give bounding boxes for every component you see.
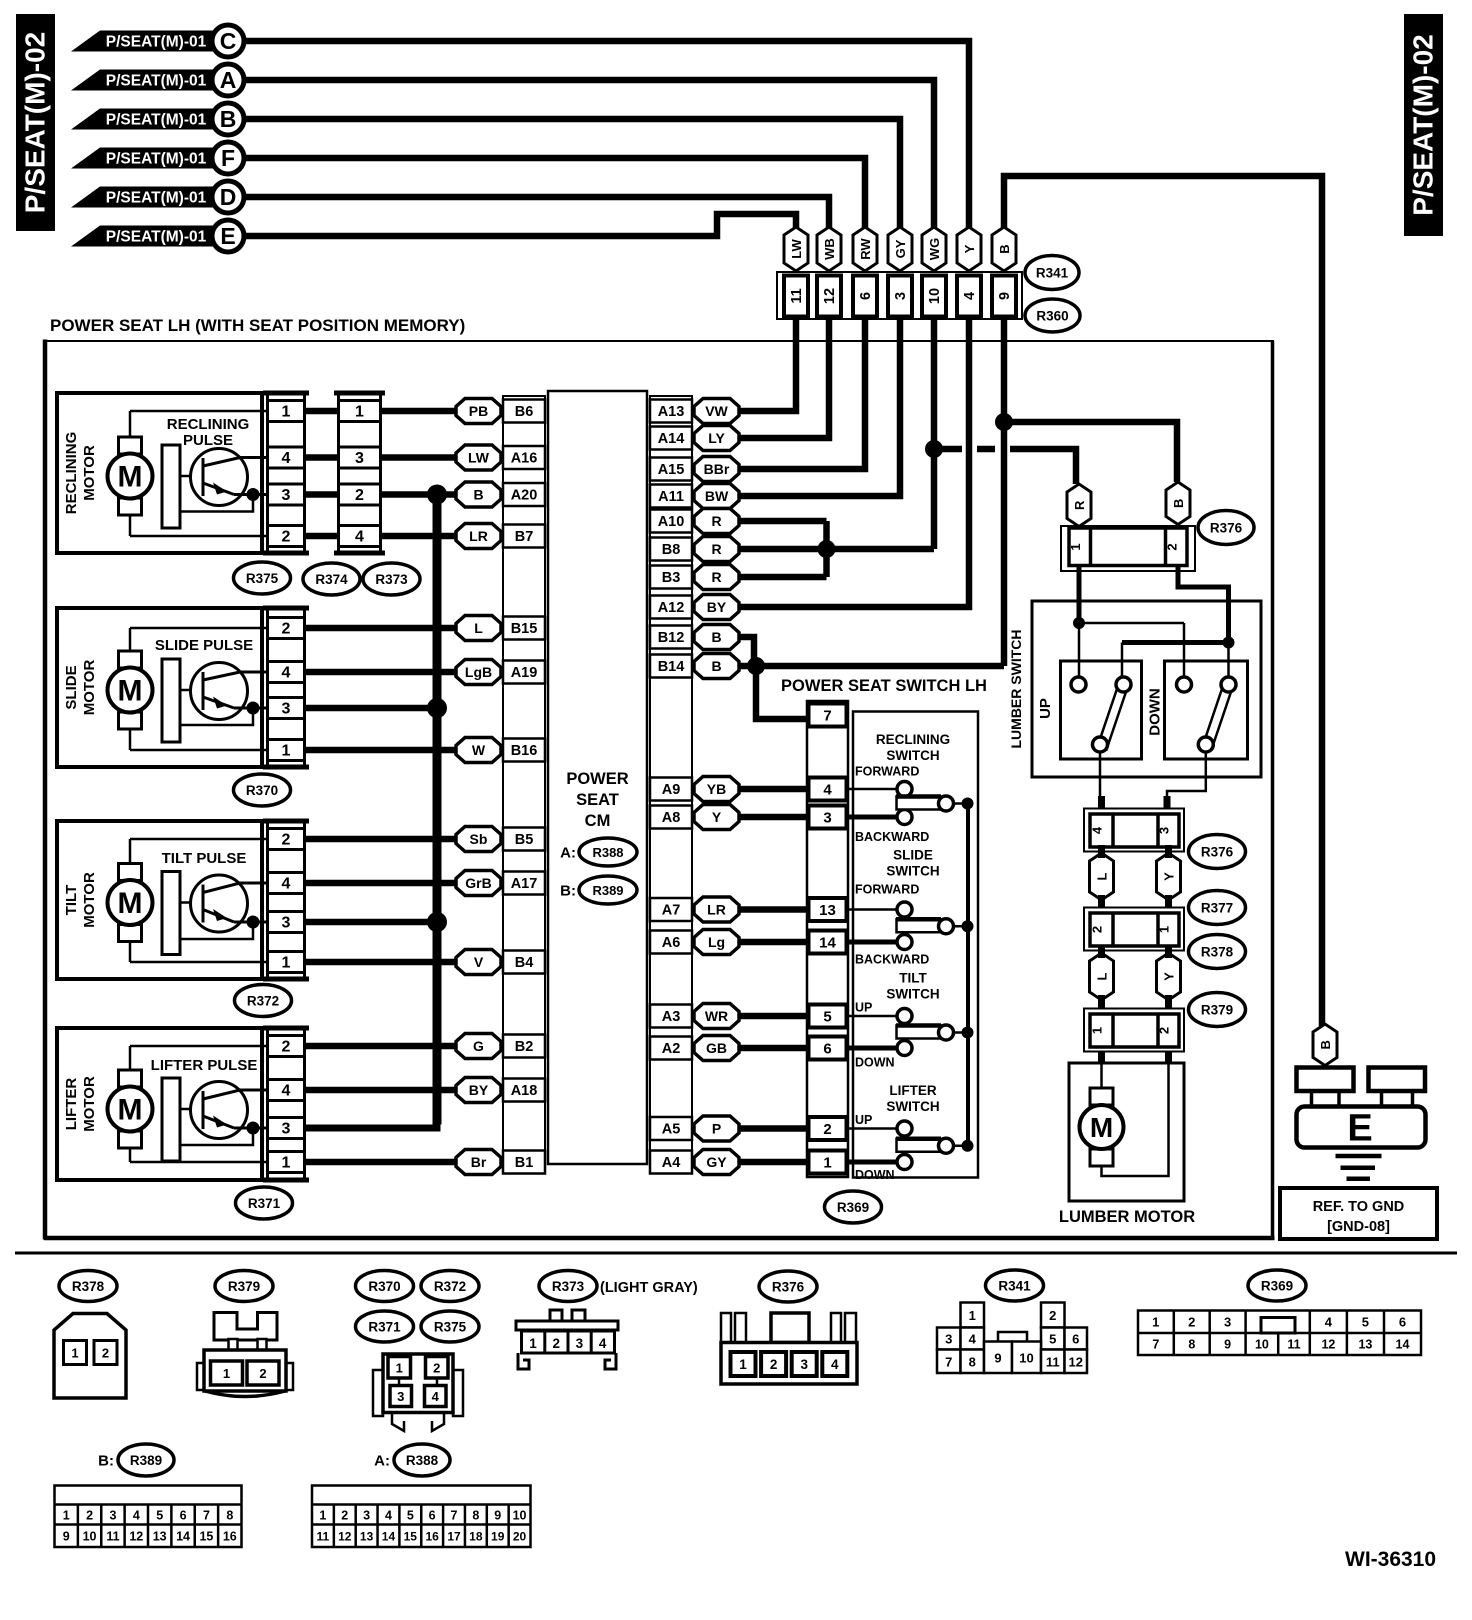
svg-text:1: 1 — [355, 404, 364, 421]
svg-text:R373: R373 — [375, 572, 408, 587]
svg-text:3: 3 — [282, 915, 291, 932]
svg-text:4: 4 — [282, 1083, 291, 1100]
svg-text:SWITCH: SWITCH — [886, 748, 939, 763]
svg-text:2: 2 — [1090, 926, 1105, 933]
connector column R371 — [263, 1026, 309, 1031]
svg-text:LW: LW — [789, 239, 804, 259]
svg-text:B: B — [711, 658, 721, 674]
svg-text:3: 3 — [282, 1121, 291, 1138]
svg-text:R369: R369 — [1261, 1279, 1293, 1294]
motor M lifter — [130, 1045, 266, 1048]
cell A2 / capsule GB — [650, 1037, 692, 1060]
wire R376-1 to lumber switch — [1077, 566, 1082, 624]
wire to switch pin 3 — [739, 814, 807, 821]
svg-text:4: 4 — [1090, 826, 1105, 834]
connector label R388 — [579, 838, 637, 866]
svg-text:R370: R370 — [246, 783, 278, 798]
svg-text:R378: R378 — [1201, 945, 1234, 960]
svg-text:R388: R388 — [406, 1453, 439, 1468]
svg-text:8: 8 — [226, 1509, 233, 1523]
wire to capsule BY — [306, 1087, 458, 1094]
connector block R376 lumber — [1084, 809, 1184, 852]
svg-text:Lg: Lg — [708, 934, 725, 950]
svg-text:WB: WB — [822, 238, 837, 260]
pin 12 cell R341 — [817, 276, 841, 317]
svg-text:SWITCH: SWITCH — [886, 1099, 939, 1114]
svg-text:LUMBER SWITCH: LUMBER SWITCH — [1008, 630, 1024, 749]
wire pin 6 to A15 BBr — [739, 318, 865, 469]
svg-text:4: 4 — [282, 450, 291, 467]
connector label R372 legend — [421, 1271, 479, 1302]
svg-text:C: C — [220, 28, 237, 54]
svg-text:18: 18 — [469, 1530, 483, 1544]
svg-text:Y: Y — [962, 244, 977, 253]
svg-text:12: 12 — [1321, 1338, 1335, 1352]
svg-text:P/SEAT(M)-02: P/SEAT(M)-02 — [1408, 34, 1439, 216]
svg-text:5: 5 — [823, 1009, 831, 1026]
svg-text:G: G — [473, 1038, 484, 1054]
svg-text:4: 4 — [969, 1332, 977, 1347]
POWER SEAT CM left connector strip B — [503, 396, 545, 1158]
connector label R379 — [1189, 993, 1246, 1027]
svg-text:RW: RW — [858, 238, 873, 260]
capsule Sb / cell B5 — [456, 827, 501, 852]
svg-text:12: 12 — [822, 288, 838, 304]
POWER SEAT CM center box — [548, 391, 647, 1164]
wire banner C to pin 4 — [244, 41, 969, 230]
svg-text:SLIDE: SLIDE — [63, 665, 80, 709]
svg-text:9: 9 — [1224, 1338, 1231, 1352]
svg-text:4: 4 — [282, 876, 291, 893]
svg-text:2: 2 — [341, 1509, 348, 1523]
svg-text:10: 10 — [927, 288, 943, 304]
svg-text:R371: R371 — [248, 1196, 281, 1211]
svg-text:11: 11 — [317, 1530, 330, 1544]
wire pin 3 to B bus — [306, 919, 437, 926]
svg-text:FORWARD: FORWARD — [855, 765, 919, 779]
R373 pinout — [550, 1310, 562, 1329]
connector banner P/SEAT(M)-01 F — [71, 148, 226, 169]
svg-text:SLIDE PULSE: SLIDE PULSE — [155, 637, 253, 654]
svg-text:POWER SEAT SWITCH LH: POWER SEAT SWITCH LH — [781, 677, 987, 695]
svg-text:2: 2 — [823, 1121, 831, 1138]
svg-text:Br: Br — [471, 1154, 487, 1170]
svg-text:M: M — [118, 461, 143, 494]
svg-text:P/SEAT(M)-01: P/SEAT(M)-01 — [106, 151, 207, 168]
wire A10 R to bus — [739, 518, 827, 525]
R376 pinout — [721, 1313, 731, 1343]
svg-text:8: 8 — [969, 1354, 976, 1369]
svg-text:P/SEAT(M)-01: P/SEAT(M)-01 — [106, 34, 207, 51]
svg-text:B12: B12 — [658, 630, 685, 646]
R341 pinout — [961, 1303, 985, 1328]
svg-text:FORWARD: FORWARD — [855, 883, 919, 897]
svg-text:1: 1 — [396, 1360, 403, 1375]
svg-text:12: 12 — [129, 1530, 143, 1544]
svg-text:B: B — [220, 106, 237, 132]
wire banner E to pin 11 — [244, 214, 796, 236]
svg-text:R372: R372 — [247, 994, 279, 1009]
switch bus vertical — [966, 803, 970, 1146]
svg-text:LW: LW — [468, 450, 490, 466]
svg-text:1: 1 — [529, 1336, 537, 1351]
svg-text:7: 7 — [823, 708, 831, 725]
svg-text:4: 4 — [823, 782, 832, 799]
svg-text:F: F — [221, 145, 235, 171]
svg-text:R360: R360 — [1036, 309, 1068, 324]
svg-text:2: 2 — [433, 1360, 440, 1375]
svg-text:A:: A: — [560, 845, 576, 862]
capsule L / cell B15 — [456, 616, 501, 641]
connector label R370 — [234, 774, 291, 806]
wire to switch pin 13 — [739, 906, 807, 913]
cell A12 / capsule BY — [650, 596, 692, 619]
svg-text:BACKWARD: BACKWARD — [855, 830, 929, 844]
separator line — [15, 1252, 1457, 1255]
connector label R360 — [1025, 299, 1080, 332]
svg-text:WG: WG — [927, 238, 942, 260]
transistor reclining pulse — [162, 445, 180, 528]
wire branch to DOWN left contact — [1079, 622, 1184, 625]
switch inner box — [853, 712, 978, 1178]
svg-text:PULSE: PULSE — [183, 432, 233, 449]
switch pin 2 cell — [809, 1117, 847, 1140]
svg-text:BW: BW — [705, 488, 729, 504]
connector banner P/SEAT(M)-01 C — [71, 31, 226, 52]
capsule B ground — [1313, 1024, 1337, 1066]
svg-text:R370: R370 — [368, 1279, 400, 1294]
svg-text:VW: VW — [705, 403, 728, 419]
svg-text:14: 14 — [1396, 1338, 1410, 1352]
connector label R378 legend — [59, 1271, 117, 1302]
svg-text:17: 17 — [447, 1530, 461, 1544]
wire to switch pin 2 — [739, 1125, 807, 1132]
wire color tag B pin 9 — [992, 227, 1016, 271]
svg-text:20: 20 — [513, 1530, 527, 1544]
wire color tag GY pin 3 — [888, 227, 912, 271]
wire to switch pin 4 — [739, 786, 807, 793]
svg-text:1: 1 — [969, 1308, 976, 1323]
svg-text:4: 4 — [282, 665, 291, 682]
svg-text:A16: A16 — [511, 451, 538, 467]
svg-text:M: M — [1090, 1112, 1113, 1143]
svg-text:4: 4 — [133, 1509, 140, 1523]
svg-text:4: 4 — [432, 1389, 440, 1404]
lifter motor box — [57, 1028, 262, 1180]
switch pin 1 cell — [809, 1151, 847, 1174]
connector label R372 — [235, 985, 292, 1017]
svg-text:4: 4 — [1325, 1315, 1333, 1330]
svg-text:R375: R375 — [246, 571, 279, 586]
R370/R371/R372/R375 pinout — [373, 1370, 383, 1416]
wire color tag WG pin 10 — [922, 227, 946, 271]
svg-text:1: 1 — [282, 955, 291, 972]
connector label R371 — [236, 1187, 293, 1219]
svg-text:2: 2 — [1188, 1315, 1195, 1330]
switch pin 4 cell — [809, 778, 847, 801]
svg-text:3: 3 — [1157, 827, 1172, 834]
svg-text:WI-36310: WI-36310 — [1345, 1548, 1436, 1571]
svg-text:GY: GY — [706, 1154, 727, 1170]
svg-text:W: W — [472, 742, 486, 758]
svg-text:6: 6 — [1072, 1332, 1079, 1347]
svg-text:7: 7 — [451, 1509, 458, 1523]
svg-text:GY: GY — [893, 239, 908, 258]
svg-text:4: 4 — [355, 529, 364, 546]
capsule V / cell B4 — [456, 950, 501, 975]
svg-text:B:: B: — [98, 1453, 114, 1470]
svg-text:GB: GB — [706, 1040, 727, 1056]
svg-text:POWER: POWER — [566, 770, 628, 788]
svg-text:9: 9 — [994, 1350, 1001, 1365]
cell B14 / capsule B — [650, 655, 692, 678]
wire R376-2 to lumber switch — [1178, 566, 1229, 643]
svg-text:SWITCH: SWITCH — [886, 864, 939, 879]
cell A7 / capsule LR — [650, 898, 692, 921]
svg-text:B: B — [1318, 1040, 1333, 1049]
svg-text:B14: B14 — [658, 659, 685, 675]
svg-text:B15: B15 — [511, 621, 538, 637]
connector label R378 — [1189, 935, 1246, 969]
wire to capsule B — [382, 491, 458, 498]
svg-text:DOWN: DOWN — [855, 1056, 895, 1070]
cell A11 / capsule BW — [650, 485, 692, 508]
wire pin 4 Y / A12 BY — [739, 318, 969, 607]
connector label R374 — [303, 563, 360, 595]
svg-text:A15: A15 — [658, 462, 685, 478]
LUMBER SWITCH box — [1032, 601, 1261, 777]
svg-text:A14: A14 — [658, 431, 685, 447]
svg-text:16: 16 — [223, 1530, 237, 1544]
svg-text:MOTOR: MOTOR — [81, 872, 98, 928]
wire column to column — [306, 491, 338, 498]
svg-text:A: A — [220, 67, 237, 93]
wire B14 to switch pin 7 — [756, 666, 807, 719]
svg-text:14: 14 — [382, 1530, 396, 1544]
svg-text:R389: R389 — [592, 883, 623, 898]
svg-text:R369: R369 — [837, 1200, 869, 1215]
connector R341/R360 top block — [777, 272, 1022, 319]
svg-text:Y: Y — [1162, 872, 1177, 881]
svg-text:1: 1 — [823, 1155, 831, 1172]
svg-text:B7: B7 — [515, 529, 534, 545]
svg-text:7: 7 — [1152, 1338, 1159, 1352]
svg-text:6: 6 — [858, 292, 874, 300]
svg-text:M: M — [118, 675, 143, 708]
cell A3 / capsule WR — [650, 1005, 692, 1028]
svg-text:4: 4 — [599, 1336, 607, 1351]
cell A15 / capsule BBr — [650, 458, 692, 481]
svg-text:SLIDE: SLIDE — [893, 848, 933, 863]
wire banner B to pin 3 — [244, 119, 900, 230]
wire color tag RW pin 6 — [853, 227, 877, 271]
junction dot bus A20 — [427, 485, 447, 505]
wire R bus to pin 10 — [827, 546, 935, 553]
cell A5 / capsule P — [650, 1117, 692, 1140]
svg-text:1: 1 — [223, 1366, 230, 1381]
svg-text:P/SEAT(M)-02: P/SEAT(M)-02 — [20, 32, 51, 214]
svg-text:R376: R376 — [1201, 845, 1234, 860]
svg-text:REF. TO GND: REF. TO GND — [1313, 1199, 1405, 1215]
svg-text:TILT: TILT — [63, 885, 80, 916]
pin 10 cell R341 — [922, 276, 946, 317]
svg-text:Sb: Sb — [470, 831, 488, 847]
svg-text:YB: YB — [707, 781, 726, 797]
svg-text:B5: B5 — [515, 832, 534, 848]
svg-text:2: 2 — [1165, 543, 1180, 550]
svg-text:BACKWARD: BACKWARD — [855, 953, 929, 967]
svg-text:10: 10 — [1019, 1350, 1033, 1365]
ground hatching — [1336, 1154, 1382, 1159]
wire banner A to pin 10 — [244, 80, 934, 230]
svg-text:7: 7 — [203, 1509, 210, 1523]
wire pin 9 B down — [1001, 318, 1008, 666]
cell A10 / capsule R — [650, 510, 692, 533]
svg-text:R: R — [711, 569, 721, 585]
svg-text:RECLINING: RECLINING — [63, 432, 80, 515]
svg-text:14: 14 — [819, 935, 836, 952]
svg-text:4: 4 — [831, 1357, 839, 1372]
svg-text:R341: R341 — [998, 1279, 1031, 1294]
svg-text:LR: LR — [707, 902, 726, 918]
svg-text:2: 2 — [770, 1357, 778, 1372]
wire column to column — [306, 454, 338, 461]
svg-text:R377: R377 — [1201, 901, 1233, 916]
svg-text:R373: R373 — [552, 1279, 585, 1294]
svg-text:2: 2 — [282, 621, 291, 638]
svg-text:Y: Y — [712, 809, 722, 825]
svg-text:WR: WR — [705, 1008, 728, 1024]
transistor lifter pulse — [162, 1078, 180, 1161]
svg-text:P/SEAT(M)-01: P/SEAT(M)-01 — [106, 190, 207, 207]
svg-text:E: E — [1347, 1108, 1372, 1150]
svg-text:D: D — [220, 184, 237, 210]
svg-text:13: 13 — [360, 1530, 374, 1544]
connector banner P/SEAT(M)-01 A — [71, 70, 226, 91]
svg-text:TILT: TILT — [899, 971, 927, 986]
svg-text:GrB: GrB — [465, 875, 491, 891]
R379 pinout — [214, 1313, 277, 1341]
svg-text:A9: A9 — [662, 782, 681, 798]
wire to switch pin 14 — [739, 939, 807, 946]
svg-text:R341: R341 — [1036, 266, 1069, 281]
svg-text:R: R — [1072, 500, 1087, 510]
cell A4 / capsule GY — [650, 1151, 692, 1174]
svg-text:A20: A20 — [511, 488, 538, 504]
wire B14 B row — [739, 663, 1004, 670]
svg-text:6: 6 — [1399, 1315, 1406, 1330]
svg-text:R379: R379 — [228, 1279, 260, 1294]
svg-text:LIFTER PULSE: LIFTER PULSE — [151, 1057, 258, 1074]
svg-text:3: 3 — [109, 1509, 116, 1523]
svg-text:11: 11 — [106, 1530, 119, 1544]
svg-text:2: 2 — [355, 487, 364, 504]
connector label bar P/SEAT(M)-02 left — [16, 14, 55, 231]
svg-text:A13: A13 — [658, 404, 685, 420]
svg-text:P/SEAT(M)-01: P/SEAT(M)-01 — [106, 73, 207, 90]
pin 11 cell R341 — [784, 276, 808, 317]
svg-text:P/SEAT(M)-01: P/SEAT(M)-01 — [106, 229, 207, 246]
svg-text:13: 13 — [1358, 1338, 1372, 1352]
svg-text:6: 6 — [429, 1509, 436, 1523]
svg-text:15: 15 — [404, 1530, 418, 1544]
capsule Br / cell B1 — [456, 1150, 501, 1175]
svg-text:A10: A10 — [658, 514, 685, 530]
svg-text:A8: A8 — [662, 810, 681, 826]
capsule BY / cell A18 — [456, 1078, 501, 1103]
svg-text:3: 3 — [355, 450, 364, 467]
svg-text:RECLINING: RECLINING — [167, 416, 250, 433]
svg-text:2: 2 — [86, 1509, 93, 1523]
svg-text:B: B — [1171, 499, 1186, 508]
connector banner P/SEAT(M)-01 D — [71, 187, 226, 208]
svg-text:2: 2 — [282, 1039, 291, 1056]
transistor tilt pulse — [162, 872, 180, 955]
R bus vertical — [823, 521, 830, 577]
capsule B lumber — [1166, 482, 1190, 525]
svg-text:A5: A5 — [662, 1122, 681, 1138]
svg-text:3: 3 — [800, 1357, 808, 1372]
svg-text:1: 1 — [71, 1346, 78, 1361]
wire DOWN contact to R376 pin 3 — [1167, 752, 1206, 809]
svg-text:B1: B1 — [515, 1155, 534, 1171]
cell A13 / capsule VW — [650, 400, 692, 423]
motor M tilt — [130, 838, 266, 841]
svg-text:A12: A12 — [658, 600, 685, 616]
wire B12 B — [739, 637, 754, 664]
cell B3 / capsule R — [650, 566, 692, 589]
tilt motor box — [57, 821, 262, 979]
capsule B / cell A20 — [456, 482, 501, 507]
wire to capsule L — [306, 625, 458, 632]
junction dot bus slide — [427, 698, 447, 718]
svg-text:B: B — [711, 629, 721, 645]
svg-text:19: 19 — [491, 1530, 505, 1544]
svg-text:10: 10 — [83, 1530, 97, 1544]
junction dot B14 — [747, 657, 765, 675]
svg-text:11: 11 — [789, 288, 805, 303]
svg-text:R379: R379 — [1201, 1003, 1233, 1018]
wire B branch to lumber B capsule — [1004, 422, 1177, 482]
svg-text:9: 9 — [997, 292, 1013, 300]
svg-text:6: 6 — [823, 1041, 831, 1058]
connector label R377 — [1189, 891, 1246, 925]
lumber UP switch — [1061, 661, 1142, 759]
wire to switch pin 5 — [739, 1013, 807, 1020]
wire to capsule LgB — [306, 669, 458, 676]
svg-text:R371: R371 — [368, 1320, 401, 1335]
svg-text:R375: R375 — [434, 1320, 467, 1335]
svg-text:3: 3 — [282, 701, 291, 718]
svg-text:R374: R374 — [315, 572, 348, 587]
wire to capsule LR — [382, 533, 458, 540]
svg-text:V: V — [474, 954, 484, 970]
cell A9 / capsule YB — [650, 778, 692, 801]
wire pin 3 to B bus — [306, 1125, 437, 1132]
svg-text:SEAT: SEAT — [576, 791, 619, 809]
svg-text:2: 2 — [1157, 1027, 1172, 1034]
svg-text:2: 2 — [259, 1366, 266, 1381]
capsule LW / cell A16 — [456, 445, 501, 470]
svg-text:R388: R388 — [592, 845, 623, 860]
svg-text:LY: LY — [708, 430, 725, 446]
capsule W / cell B16 — [456, 738, 501, 763]
svg-text:9: 9 — [63, 1530, 70, 1544]
svg-text:UP: UP — [1037, 698, 1054, 719]
capsule Y 2 — [1157, 953, 1181, 1000]
svg-text:R: R — [711, 513, 721, 529]
svg-text:13: 13 — [819, 902, 836, 919]
